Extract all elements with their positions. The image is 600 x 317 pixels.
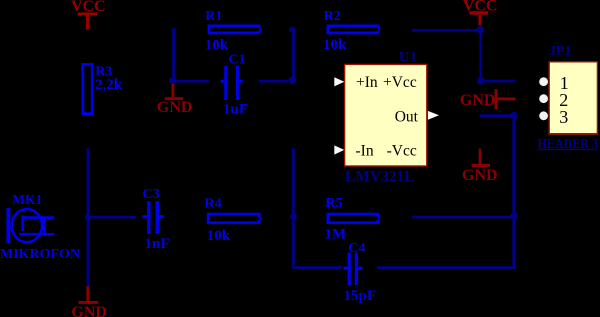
svg-text:3: 3 <box>559 107 568 127</box>
svg-text:JP1: JP1 <box>549 44 572 59</box>
svg-text:-In: -In <box>356 143 374 160</box>
svg-text:GND: GND <box>462 167 498 184</box>
svg-text:1uF: 1uF <box>223 102 248 118</box>
svg-text:HEADER 3: HEADER 3 <box>538 137 599 152</box>
svg-text:1nF: 1nF <box>145 236 170 252</box>
svg-text:R5: R5 <box>325 196 342 211</box>
svg-text:GND: GND <box>460 92 496 109</box>
svg-text:+In: +In <box>356 74 378 91</box>
svg-text:10k: 10k <box>207 228 231 244</box>
svg-text:C4: C4 <box>348 241 365 256</box>
svg-text:-Vcc: -Vcc <box>387 143 417 160</box>
svg-text:MK1: MK1 <box>12 192 42 207</box>
svg-text:LMV321L: LMV321L <box>345 168 415 185</box>
svg-text:1M: 1M <box>325 226 347 242</box>
svg-text:2,2k: 2,2k <box>95 77 123 93</box>
svg-text:R2: R2 <box>324 9 341 24</box>
svg-text:VCC: VCC <box>463 0 498 15</box>
svg-text:GND: GND <box>157 99 193 116</box>
svg-text:GND: GND <box>71 304 107 317</box>
svg-text:10k: 10k <box>323 37 347 53</box>
svg-text:+Vcc: +Vcc <box>383 74 417 91</box>
svg-text:R1: R1 <box>205 9 222 24</box>
svg-text:15pF: 15pF <box>344 288 377 304</box>
svg-text:MIKROFON: MIKROFON <box>0 247 80 262</box>
svg-text:C3: C3 <box>143 187 160 202</box>
svg-text:10k: 10k <box>205 37 229 53</box>
svg-text:R4: R4 <box>205 197 222 212</box>
svg-text:U1: U1 <box>399 49 417 65</box>
svg-text:VCC: VCC <box>71 0 106 15</box>
svg-text:C1: C1 <box>229 52 246 67</box>
svg-text:Out: Out <box>395 109 419 126</box>
